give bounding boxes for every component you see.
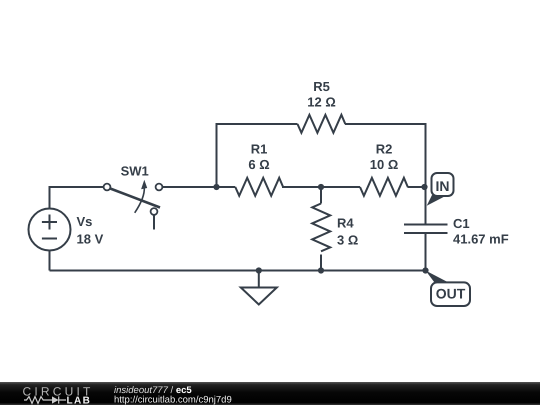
- svg-text:10 Ω: 10 Ω: [370, 157, 399, 172]
- svg-text:R2: R2: [376, 142, 393, 157]
- svg-text:18 V: 18 V: [77, 231, 104, 246]
- svg-text:C1: C1: [453, 216, 470, 231]
- svg-text:3 Ω: 3 Ω: [337, 232, 358, 247]
- svg-text:6 Ω: 6 Ω: [248, 157, 269, 172]
- svg-text:http://circuitlab.com/c9nj7d9: http://circuitlab.com/c9nj7d9: [114, 395, 232, 405]
- svg-text:OUT: OUT: [436, 286, 466, 302]
- svg-text:LAB: LAB: [67, 396, 92, 405]
- svg-text:Vs: Vs: [77, 214, 93, 229]
- svg-text:IN: IN: [436, 178, 450, 194]
- svg-text:R5: R5: [313, 79, 330, 94]
- svg-text:R1: R1: [251, 142, 268, 157]
- svg-text:12 Ω: 12 Ω: [307, 95, 336, 110]
- svg-text:SW1: SW1: [121, 164, 149, 179]
- svg-text:41.67 mF: 41.67 mF: [453, 232, 509, 247]
- svg-text:R4: R4: [337, 215, 354, 230]
